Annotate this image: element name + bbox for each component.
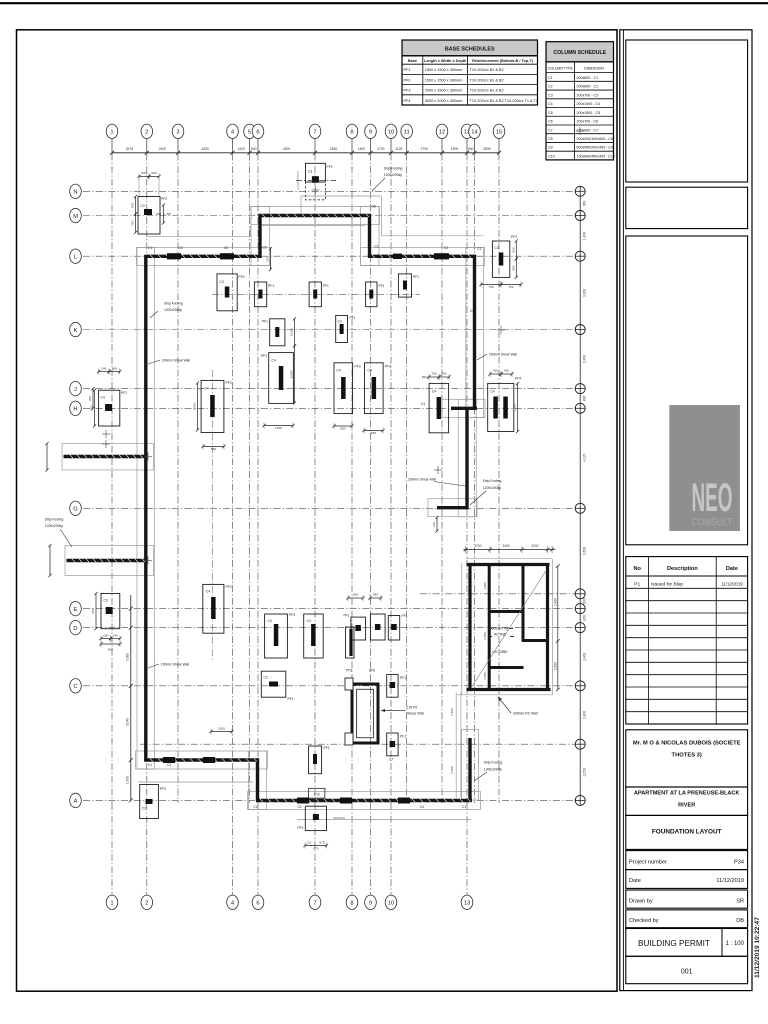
wall hatch texture: [70, 214, 471, 802]
minor grid row through PF1 pads: [212, 293, 420, 295]
svg-text:200x600 - C2: 200x600 - C2: [577, 85, 599, 89]
stair side dimension: [483, 564, 560, 691]
svg-text:200x600 - C1: 200x600 - C1: [577, 76, 599, 80]
svg-text:2,650: 2,650: [483, 632, 487, 640]
svg-text:1 : 100: 1 : 100: [726, 941, 745, 947]
svg-text:500: 500: [108, 648, 113, 652]
drawn by row: [626, 890, 748, 908]
pad footing PF2 (grid 9/J): [365, 363, 392, 414]
dim pad N cross: [156, 203, 171, 224]
dim 600 above PF1 e5: [346, 593, 364, 601]
svg-text:COLUMN TYPE: COLUMN TYPE: [548, 67, 574, 71]
svg-text:2805: 2805: [483, 147, 491, 151]
svg-text:C1: C1: [462, 805, 466, 809]
svg-text:PF1: PF1: [324, 746, 330, 750]
svg-text:001: 001: [681, 969, 693, 976]
svg-text:NEO: NEO: [692, 476, 733, 520]
pad footing PF3 (grid 3/J): [201, 380, 232, 432]
svg-text:C8: C8: [548, 137, 553, 141]
svg-text:C1: C1: [148, 763, 152, 767]
dim 420 420 above PF4: [488, 369, 502, 378]
svg-text:600: 600: [251, 147, 257, 151]
svg-text:875: 875: [319, 841, 324, 845]
svg-text:PF3: PF3: [404, 89, 411, 93]
pad footing PF2 (grid 1/E): [101, 594, 120, 629]
svg-text:900: 900: [583, 200, 587, 206]
svg-text:975: 975: [88, 396, 92, 401]
svg-text:700: 700: [131, 220, 135, 225]
dim pad7 cross: [296, 171, 336, 190]
svg-text:1905: 1905: [451, 147, 459, 151]
pad footing PF1 (grid 7/B): [309, 746, 330, 774]
svg-text:140: 140: [432, 522, 436, 527]
wall W4 (step down): [368, 214, 371, 258]
svg-text:600: 600: [151, 171, 156, 175]
svg-text:C1: C1: [548, 76, 553, 80]
svg-text:C4: C4: [337, 369, 341, 373]
wall W8 (grid G stub): [437, 506, 469, 509]
minor grid line (pad centreline): [212, 370, 214, 660]
svg-text:11/12/2019: 11/12/2019: [721, 582, 743, 587]
svg-text:M: M: [73, 214, 78, 220]
svg-text:C4: C4: [307, 619, 311, 623]
grid line 3: [172, 124, 184, 803]
svg-text:Shear Wall: Shear Wall: [407, 712, 424, 716]
dim 140 below W8 stub: [432, 516, 439, 533]
grid line 7: [309, 124, 321, 909]
svg-text:600: 600: [90, 405, 94, 410]
svg-text:12: 12: [439, 130, 445, 136]
svg-text:3,300: 3,300: [126, 653, 130, 661]
svg-text:1500 x 1500 x 300mm: 1500 x 1500 x 300mm: [425, 68, 463, 72]
stair top dimension: [464, 544, 556, 553]
svg-text:C4: C4: [548, 102, 553, 106]
dim v 240 600 pad J1: [90, 389, 96, 428]
svg-text:PF2: PF2: [511, 235, 517, 239]
svg-text:C4: C4: [272, 359, 276, 363]
svg-text:14: 14: [471, 130, 478, 136]
building permit row: [626, 929, 748, 957]
svg-text:PF1: PF1: [400, 676, 406, 680]
svg-text:150x600/450x450 - C10: 150x600/450x450 - C10: [577, 154, 615, 158]
revision table: [626, 557, 748, 724]
svg-text:C3: C3: [548, 93, 553, 97]
wall W9 (south-west): [144, 758, 259, 761]
svg-text:3,000: 3,000: [583, 289, 587, 297]
svg-text:2,250: 2,250: [583, 768, 587, 776]
svg-text:Description: Description: [667, 566, 698, 572]
svg-text:2700: 2700: [421, 147, 429, 151]
pad footing PF2 (grid 15/L): [492, 235, 517, 277]
svg-text:1700: 1700: [377, 147, 385, 151]
pad footing PF1 (grid 11 row): [398, 274, 419, 297]
grid line 8: [346, 124, 358, 909]
svg-text:COLUMN SCHEDULE: COLUMN SCHEDULE: [553, 50, 606, 56]
wall W7 (grid H stub): [451, 407, 477, 410]
dim v 600 600 at PF2 L: [512, 239, 518, 260]
svg-text:1,500: 1,500: [554, 662, 558, 670]
svg-text:C4: C4: [491, 390, 495, 394]
svg-text:7: 7: [313, 901, 316, 907]
svg-text:200mm Shear Wall: 200mm Shear Wall: [161, 663, 189, 667]
narrow column pad grid 8/D: [346, 627, 355, 658]
dim 750 750 above PF3 12J: [427, 372, 440, 381]
dim 1100 south zone: [209, 727, 233, 735]
svg-text:2,400: 2,400: [583, 711, 587, 719]
svg-text:C4: C4: [205, 387, 209, 391]
svg-text:C1: C1: [148, 246, 152, 250]
grid line F: [420, 593, 580, 595]
svg-text:Lift Pit: Lift Pit: [407, 706, 417, 710]
PF2 grid7 dashed lower outline: [306, 182, 326, 200]
svg-text:C8: C8: [372, 205, 376, 209]
svg-text:1200x200dp: 1200x200dp: [45, 524, 63, 528]
svg-text:C2: C2: [548, 85, 553, 89]
svg-text:PF2: PF2: [161, 197, 167, 201]
grid line 1: [106, 124, 118, 909]
svg-text:8: 8: [350, 130, 353, 136]
sheet number row: [626, 956, 748, 983]
stair core outline: [457, 559, 553, 695]
pad footing PF3 (grid 6/K-J): [261, 353, 293, 404]
svg-text:PF4: PF4: [515, 377, 521, 381]
svg-text:845: 845: [371, 431, 376, 435]
dim v 4050 6050 row K: [290, 317, 296, 347]
svg-text:600: 600: [91, 608, 95, 613]
svg-text:650: 650: [211, 447, 216, 451]
svg-text:C4: C4: [298, 805, 302, 809]
svg-text:2480: 2480: [330, 147, 338, 151]
svg-text:1: 1: [110, 901, 113, 907]
svg-text:11/12/2019: 11/12/2019: [716, 878, 744, 884]
svg-text:200x700 - C3: 200x700 - C3: [577, 93, 599, 97]
dim 1300 below PF3 K-J: [262, 423, 294, 430]
pad N ext lines: [139, 179, 159, 197]
title box 1 (architect): [626, 40, 748, 182]
svg-text:C7: C7: [548, 128, 553, 132]
stair diagonal: [471, 570, 547, 688]
svg-text:Strip Footing: Strip Footing: [45, 518, 64, 522]
grid line L: [70, 249, 581, 263]
pad footing PF3 (grid 12/J): [422, 376, 449, 433]
grid line 2: [141, 124, 153, 909]
pad footing PF1 (grid 9 row): [366, 282, 385, 307]
svg-text:11: 11: [404, 130, 410, 136]
svg-text:C3: C3: [141, 204, 145, 208]
svg-text:600: 600: [512, 247, 516, 252]
svg-text:PF3: PF3: [226, 585, 232, 589]
NEO CONSULT logo: [669, 405, 740, 531]
svg-text:2000: 2000: [531, 544, 538, 548]
shear wall labels: [148, 353, 517, 669]
grid line A: [70, 793, 581, 807]
wall W3 (grid M): [259, 214, 372, 217]
lift pit labels: [346, 669, 424, 716]
grid line H: [70, 401, 581, 415]
top dimension line: [110, 147, 501, 155]
svg-text:C4: C4: [432, 390, 436, 394]
svg-text:3,040: 3,040: [126, 718, 130, 726]
grid line 11: [401, 124, 413, 803]
svg-text:DB: DB: [736, 918, 744, 924]
svg-text:15: 15: [496, 130, 502, 136]
svg-text:Length x Width x Depth: Length x Width x Depth: [424, 59, 467, 63]
dim v pad N left: [131, 195, 137, 216]
svg-text:420: 420: [504, 369, 509, 373]
svg-text:2: 2: [145, 901, 148, 907]
svg-text:600: 600: [353, 593, 358, 597]
svg-text:PF6: PF6: [369, 669, 375, 673]
wall W6b (east shear wall lower): [465, 407, 468, 509]
pad footing PF1 (grid 6 row): [254, 282, 274, 307]
dim v 600 left pad E1: [91, 592, 97, 630]
dim v 1500 at PF4: [513, 382, 519, 433]
wall W12 (below stair): [468, 738, 471, 800]
svg-text:1,900: 1,900: [483, 582, 487, 590]
pad footing PF3 (grid 6/D): [265, 613, 296, 658]
svg-text:2400: 2400: [502, 544, 509, 548]
svg-text:C3: C3: [104, 599, 108, 603]
grid line 15: [493, 124, 505, 803]
svg-text:CONSULT: CONSULT: [692, 517, 733, 529]
sheet frame: [17, 30, 618, 991]
svg-text:C4: C4: [268, 619, 272, 623]
svg-text:PF2: PF2: [239, 275, 245, 279]
svg-text:J: J: [74, 387, 77, 393]
svg-text:1200x200dp: 1200x200dp: [484, 768, 502, 772]
svg-text:750: 750: [441, 372, 446, 376]
svg-text:1,000: 1,000: [193, 402, 197, 410]
svg-text:BASE SCHEDULES: BASE SCHEDULES: [445, 47, 495, 53]
title block outer frame: [620, 30, 752, 991]
svg-text:C1: C1: [254, 805, 258, 809]
svg-text:C4: C4: [420, 805, 424, 809]
svg-text:D: D: [73, 626, 77, 632]
svg-text:C4: C4: [179, 246, 183, 250]
svg-text:3,500: 3,500: [583, 547, 587, 555]
svg-text:200x1500 - C5: 200x1500 - C5: [577, 111, 601, 115]
svg-text:1,490: 1,490: [583, 232, 587, 240]
grid line 13: [461, 124, 473, 909]
grid line D: [70, 620, 581, 634]
svg-text:Date: Date: [629, 878, 641, 884]
svg-text:550: 550: [468, 147, 474, 151]
svg-text:FOUNDATION LAYOUT: FOUNDATION LAYOUT: [652, 829, 722, 836]
svg-text:3: 3: [176, 130, 179, 136]
date row: [626, 870, 748, 889]
svg-text:PF1: PF1: [400, 735, 406, 739]
svg-text:Strip Footing: Strip Footing: [164, 302, 183, 306]
svg-text:600: 600: [583, 598, 587, 604]
svg-text:2,400: 2,400: [450, 708, 454, 716]
svg-text:1400: 1400: [237, 147, 245, 151]
svg-text:200: 200: [266, 256, 270, 261]
svg-text:9: 9: [369, 901, 372, 907]
svg-text:PF2: PF2: [327, 165, 333, 169]
svg-text:PF4: PF4: [404, 99, 411, 103]
pad footing PF2 (grid 2/N): [138, 197, 167, 235]
svg-text:200mm Shear Wall: 200mm Shear Wall: [162, 359, 190, 363]
grid line 14: [469, 124, 481, 803]
svg-text:C2: C2: [375, 245, 379, 249]
pad footing PF4 (grid 15/J): [488, 377, 522, 432]
pad footing PF3 (grid 3/E): [203, 584, 232, 633]
svg-text:C5: C5: [548, 111, 553, 115]
wall W6a (east shear wall upper): [473, 255, 476, 410]
svg-text:PF1: PF1: [288, 697, 294, 701]
grid line 12: [436, 124, 448, 803]
svg-text:1300: 1300: [275, 426, 282, 430]
svg-text:800: 800: [583, 396, 587, 402]
svg-text:Lvl: -2850: Lvl: -2850: [493, 650, 508, 654]
strip footing band 1: [64, 455, 148, 458]
svg-text:C3: C3: [338, 320, 342, 324]
project number row: [626, 851, 748, 870]
dim corner L6: [266, 247, 272, 271]
wall W5 (grid L east): [368, 255, 476, 258]
pad footing PF1 (grid 8/D): [343, 614, 365, 641]
svg-text:1200x200dp: 1200x200dp: [483, 486, 501, 490]
grid line N: [70, 184, 581, 198]
grid line 6: [252, 124, 264, 909]
svg-text:C2: C2: [264, 676, 268, 680]
wall W2 (step up): [258, 214, 261, 258]
dim v 975 left J-H: [88, 387, 94, 410]
wall W11 (grid A south): [256, 799, 472, 802]
misc tick marks: [102, 127, 584, 565]
svg-text:C5: C5: [263, 246, 267, 250]
svg-text:300mm thk: 300mm thk: [492, 627, 509, 631]
svg-text:2: 2: [145, 130, 148, 136]
svg-text:1,050: 1,050: [483, 672, 487, 680]
grid line K: [70, 322, 581, 336]
wall W12 side dimension: [450, 693, 461, 799]
svg-text:E: E: [74, 607, 78, 613]
svg-text:Strip Footing: Strip Footing: [483, 479, 502, 483]
svg-text:190: 190: [113, 634, 118, 638]
svg-text:SR: SR: [736, 899, 744, 905]
wall W13 (west shear wall): [144, 255, 147, 762]
pad footing PF1 (row K b): [336, 315, 356, 342]
svg-text:1200x200dp: 1200x200dp: [164, 308, 182, 312]
svg-text:C6: C6: [548, 120, 553, 124]
svg-text:600: 600: [112, 367, 117, 371]
svg-text:1100: 1100: [218, 727, 225, 731]
svg-text:P1: P1: [634, 582, 640, 588]
svg-text:PF3: PF3: [422, 376, 428, 380]
wall W10 (step down south): [256, 758, 259, 801]
pad footing PF2 (grid 1/J): [99, 390, 128, 426]
client box: [626, 730, 748, 787]
base schedules table: [402, 40, 538, 56]
pad footing PF1 (grid 10/D): [388, 614, 407, 640]
dim at band2 left end: [48, 544, 51, 577]
grid line M: [70, 208, 581, 222]
svg-text:C1: C1: [478, 247, 482, 251]
grid line E: [70, 601, 581, 615]
dim 845 below PF2 9J: [362, 428, 384, 435]
svg-text:2,400: 2,400: [450, 766, 454, 774]
svg-text:C4: C4: [421, 402, 425, 406]
svg-text:T10-200c/c B1 & B2 T10-200c/: T10-200c/c B1 & B2 T10-200c/c T1 & T2: [470, 99, 538, 103]
svg-text:420: 420: [493, 369, 498, 373]
svg-text:C2: C2: [142, 807, 146, 811]
svg-text:BUILDING PERMIT: BUILDING PERMIT: [638, 939, 710, 948]
svg-text:Drawn by: Drawn by: [629, 899, 653, 905]
svg-text:C8: C8: [307, 841, 311, 845]
pad footing PF1 (grid 7 row): [309, 282, 329, 307]
svg-text:PF3: PF3: [226, 381, 232, 385]
svg-text:PF1: PF1: [404, 68, 411, 72]
svg-text:K: K: [74, 328, 78, 334]
svg-text:PF1: PF1: [350, 316, 356, 320]
svg-text:2000 x 1500 x 300mm: 2000 x 1500 x 300mm: [425, 89, 463, 93]
svg-text:800: 800: [340, 426, 345, 430]
svg-text:P34: P34: [734, 860, 744, 866]
svg-text:PF1: PF1: [323, 284, 329, 288]
checked by row: [626, 910, 748, 928]
left dimension line: [126, 595, 133, 802]
dim 200 190 pad E1: [99, 634, 112, 642]
svg-text:PF5: PF5: [346, 669, 352, 673]
svg-text:G: G: [73, 507, 78, 513]
svg-text:APARTMENT AT LA PRENEUSE-BLACK: APARTMENT AT LA PRENEUSE-BLACK: [634, 791, 740, 797]
svg-text:750: 750: [431, 372, 436, 376]
svg-text:PF2: PF2: [385, 365, 391, 369]
pad footing PF3 (grid 8/J): [334, 363, 361, 414]
pad footing PF2 (grid 7/M): [306, 163, 333, 182]
svg-text:200mm RC Wall: 200mm RC Wall: [513, 712, 538, 716]
svg-text:PF1: PF1: [413, 275, 419, 279]
column schedule table: [546, 42, 614, 62]
svg-text:PF1: PF1: [402, 614, 408, 618]
wall column blocks: [163, 253, 449, 803]
svg-text:C: C: [73, 684, 77, 690]
svg-text:C4: C4: [101, 396, 105, 400]
grid line 4: [227, 124, 239, 909]
project name box: [626, 787, 748, 815]
svg-text:1125: 1125: [395, 147, 402, 151]
svg-text:10: 10: [388, 130, 394, 136]
column C10 box on south wall: [309, 788, 325, 798]
svg-text:C10: C10: [314, 793, 320, 797]
svg-text:C6: C6: [224, 246, 228, 250]
dim pad A2 cross: [333, 817, 345, 819]
svg-text:T10-200c/c B1 & B2: T10-200c/c B1 & B2: [470, 78, 504, 82]
svg-text:DIMENSION: DIMENSION: [584, 67, 604, 71]
svg-text:PF1: PF1: [268, 284, 274, 288]
svg-text:6,050: 6,050: [290, 370, 294, 378]
title box 2: [626, 187, 748, 228]
svg-text:2400: 2400: [159, 147, 167, 151]
svg-text:THOTES 3): THOTES 3): [672, 753, 702, 759]
title box 3 (consultant): [626, 236, 748, 545]
svg-text:4300: 4300: [283, 147, 291, 151]
svg-text:2675: 2675: [126, 147, 134, 151]
svg-text:Date: Date: [726, 566, 738, 572]
strip footing outlines: [62, 196, 485, 820]
svg-text:T10-200c/c B1 & B2: T10-200c/c B1 & B2: [470, 89, 504, 93]
200mm RC Wall label: [498, 697, 538, 716]
PF4 column marks: [493, 397, 508, 419]
svg-text:200x1500 - C4: 200x1500 - C4: [577, 102, 601, 106]
svg-text:600x450/200x450 - C9: 600x450/200x450 - C9: [577, 146, 613, 150]
svg-text:Mr. M O & NICOLAS DUBOIS (SOCI: Mr. M O & NICOLAS DUBOIS (SOCIETE: [633, 741, 741, 747]
dim 750 750 below PF2 L: [479, 282, 502, 290]
svg-text:C3: C3: [220, 280, 224, 284]
svg-text:4250: 4250: [202, 147, 210, 151]
svg-text:3000 x 2000 x 300mm: 3000 x 2000 x 300mm: [425, 99, 463, 103]
